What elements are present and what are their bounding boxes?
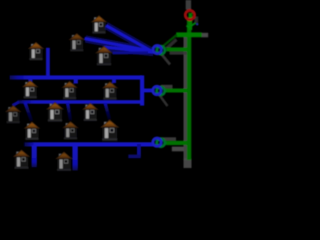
splitter S1 green ring [157, 46, 165, 54]
house B1 [6, 105, 21, 123]
splitter S2 branch to trunk (green) [165, 89, 188, 93]
splitter S3 branch to trunk (green) [166, 141, 188, 145]
sprout stem below CO ring [189, 13, 193, 30]
splitter S2 blue ring [153, 86, 161, 94]
fan line: house T3 apex to splitter S1 [104, 47, 154, 52]
branch into splitter S2 (blue) [141, 89, 155, 93]
bus 2 left tail to house B1 [13, 102, 20, 106]
subscriber bus 1 (blue horizontal) [10, 75, 143, 79]
gray shadow diagonal below splitter S2 [159, 95, 168, 107]
subscriber bus 2 (blue horizontal) [18, 100, 143, 104]
house M1 stub to bus 1 [28, 79, 32, 83]
bottom shadow below trunk end [184, 159, 192, 169]
gray shadow diagonal below splitter S1 [161, 53, 171, 65]
gray stub right of feeder cross-bar [202, 33, 209, 38]
house C3 [101, 120, 118, 141]
vertical connector bus1/bus2 to splitter S2 [140, 75, 144, 105]
fiber trunk (green vertical) [187, 20, 191, 161]
sprout right leaf [191, 23, 196, 26]
splitter S3 blue ring [153, 138, 161, 146]
central office ring (red) [185, 10, 194, 19]
splitter S1 blue ring [153, 46, 161, 54]
drop line bus2 to house C2 [68, 103, 71, 121]
house G2 vertical to bus 4 [72, 146, 77, 171]
house M3 stub to bus 1 [112, 79, 116, 84]
gray shadow under splitter S1 branch [170, 52, 188, 55]
drop line bus2 to house C1 [25, 103, 32, 122]
house M2 stub to bus 1 [74, 79, 78, 84]
gray shadow patch right of ring [195, 17, 199, 23]
house B3 [83, 103, 98, 121]
house B2 [47, 102, 63, 121]
house M2 [62, 81, 77, 99]
subscriber bus 4 (blue horizontal, bottom) [24, 142, 154, 146]
fan line: house T2 to splitter S1 [85, 39, 154, 52]
house T2 [70, 33, 85, 51]
drop: bus4 L-stub vertical [137, 144, 141, 157]
gray shadow above splitter S3 branch [162, 137, 177, 140]
splitter S1 branch to trunk (green) [166, 47, 187, 51]
fan line: house T3 wall short link [113, 51, 149, 54]
house C1 [25, 122, 40, 140]
house L1 vertical line to bus 1 [46, 48, 50, 77]
drop line bus2 to house C3 [105, 103, 110, 120]
house G1 [14, 150, 29, 169]
fan line glow to splitter S1 [86, 26, 154, 53]
bottom shadow horizontal stub [172, 147, 184, 152]
sprout blue tip [196, 23, 198, 25]
trunk shadow (gray, left of fiber trunk) [184, 37, 188, 160]
house M3 [103, 82, 118, 100]
house T3 [96, 46, 112, 65]
house G2 [56, 152, 71, 171]
fan line: house T1 to splitter S1 [106, 26, 153, 53]
gray pole above central office ring [186, 0, 191, 10]
splitter S1 uplink diagonal (dim green) [163, 35, 177, 47]
splitter S3 green ring [157, 139, 165, 147]
gray shadow above splitter S2 branch [161, 85, 173, 89]
house G1 vertical to bus 4 [32, 146, 37, 168]
house M1 [23, 81, 38, 99]
sprout left leaf [186, 26, 189, 28]
splitter S2 green ring [157, 87, 165, 95]
feeder cross-bar (green horizontal at top) [176, 32, 202, 37]
house C2 [63, 122, 78, 140]
house L1 [29, 42, 44, 60]
gray shadow diagonal above splitter S1 [167, 40, 177, 49]
drop: bus4 L-stub horizontal [128, 155, 141, 159]
house T1 [92, 16, 107, 34]
